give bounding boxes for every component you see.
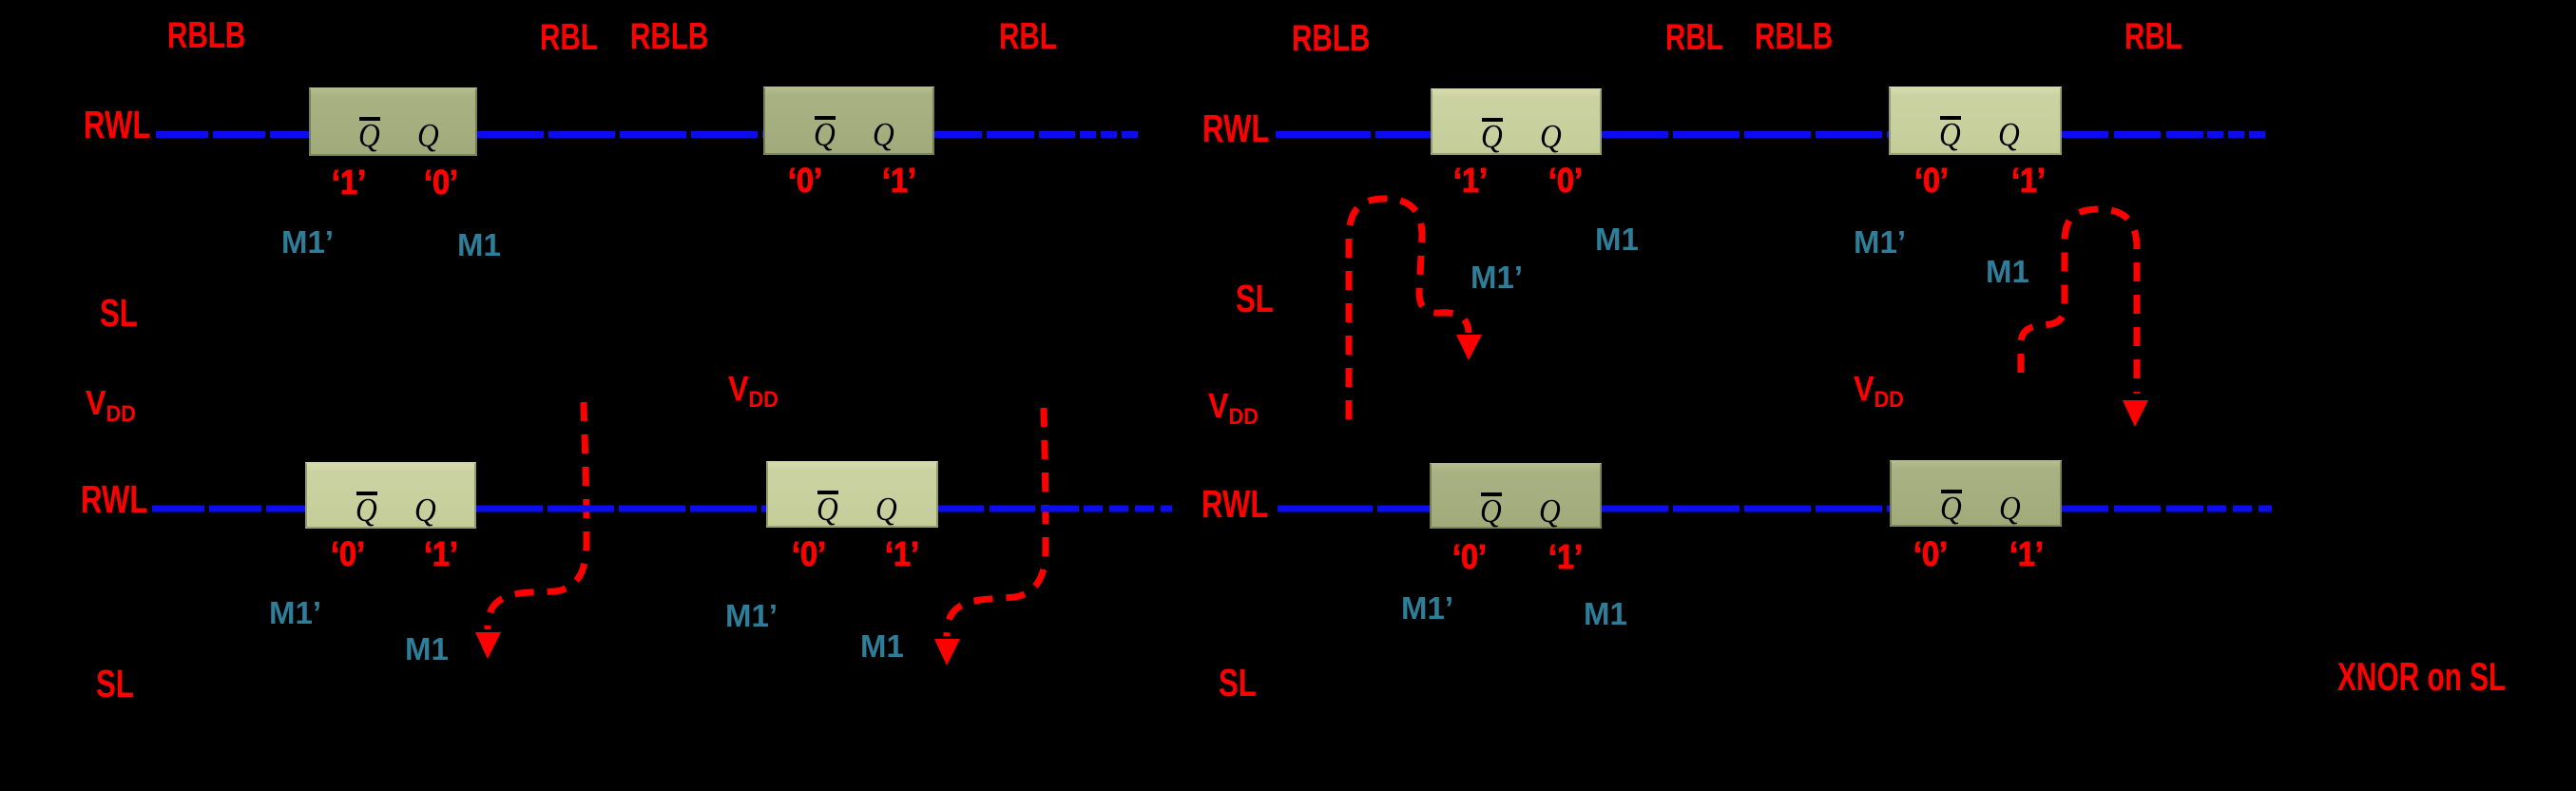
state label '1' (B2 Q)	[882, 164, 916, 198]
SRAM cell B3 (left panel row2 cell1)	[305, 462, 476, 529]
power label VDD (right panel row2)	[1854, 372, 1904, 412]
wire RWL row2 left panel seg c	[938, 506, 1079, 512]
SRAM cell B6 (right panel row1 cell2)	[1889, 87, 2062, 155]
wire RWL row1 right panel seg d (fading dashes)	[2207, 131, 2270, 138]
wire RWL row2 right panel seg d (fading dashes)	[2207, 506, 2272, 512]
state label '1' (B4 Q)	[885, 537, 919, 571]
wire RWL row1 right panel seg a	[1276, 131, 1431, 138]
SRAM cell B7 (right panel row2 cell1)	[1430, 463, 1602, 529]
wire RWL row1 right panel seg c	[2062, 131, 2203, 138]
transistor label M1 (B6)	[1986, 256, 2029, 287]
current arrow A2 (left panel bottom row cell2, red dashed)	[947, 408, 1046, 636]
state label '1' (B5 Qbar)	[1453, 164, 1488, 198]
state label '0' (B6 Qbar)	[1914, 164, 1949, 198]
transistor label M1 (B1)	[457, 229, 501, 260]
transistor label M1 (B4)	[860, 630, 904, 662]
SRAM cell B2 (left panel row1 cell2)	[763, 87, 934, 155]
state label '1' (B1 Qbar)	[332, 165, 366, 200]
arrowhead A1	[475, 632, 501, 659]
SRAM cell B5 (right panel row1 cell1)	[1431, 88, 1602, 155]
wire RWL row2 left panel seg b	[476, 506, 766, 512]
state label '0' (B7 Qbar)	[1452, 540, 1487, 574]
net label RBL (right panel cell1)	[1665, 19, 1723, 56]
current arrow A3 (right panel top row cell1, red dashed loop)	[1349, 199, 1469, 419]
wire RWL row2 left panel seg a	[152, 506, 305, 512]
net label RWL (right panel row2)	[1201, 485, 1268, 524]
wire RWL row1 left panel seg b	[477, 131, 763, 138]
power label VDD (right panel row1)	[1208, 389, 1259, 429]
state label '0' (B1 Q)	[424, 165, 458, 200]
transistor label M1 (B3)	[405, 633, 449, 665]
transistor label M1 (B5)	[1595, 223, 1639, 255]
state label '0' (B4 Qbar)	[792, 537, 826, 571]
state label '1' (B8 Q)	[2009, 537, 2044, 571]
state label '0' (B3 Qbar)	[331, 537, 365, 571]
net label RWL (left panel row1)	[84, 106, 150, 145]
net label RBLB (right panel cell2)	[1755, 18, 1833, 55]
net label RWL (right panel row1)	[1202, 109, 1269, 148]
wire RWL row2 right panel seg a	[1278, 506, 1430, 512]
SRAM cell B8 (right panel row2 cell2)	[1890, 460, 2062, 527]
wire RWL row2 right panel seg c	[2062, 506, 2203, 512]
state label '0' (B5 Q)	[1548, 164, 1583, 198]
net label RBL (left panel, cell2)	[999, 18, 1057, 55]
current arrow A1 (left panel bottom row cell1, red dashed)	[488, 402, 586, 629]
net label RWL (left panel row2)	[81, 480, 147, 519]
state label '0' (B2 Qbar)	[788, 164, 822, 198]
net label RBLB (right panel cell1)	[1292, 20, 1370, 57]
net label SL (left panel row1)	[100, 294, 138, 333]
net label SL (right panel row2)	[1219, 664, 1257, 703]
net label RBL (right panel cell2)	[2124, 18, 2182, 55]
net label SL (left panel row2)	[96, 665, 134, 704]
caption XNOR on SL	[2337, 657, 2506, 697]
SRAM cell B1 (left panel row1 cell1)	[309, 87, 477, 156]
arrowhead A2	[934, 639, 960, 666]
wire RWL row1 left panel seg c	[934, 131, 1075, 138]
current arrow A4 (right panel top row cell2, red dashed loop)	[2021, 209, 2137, 394]
transistor label M1' (B6)	[1854, 226, 1906, 258]
state label '1' (B7 Q)	[1548, 540, 1583, 574]
net label RBL (left panel, cell1)	[540, 19, 598, 56]
arrowhead A4	[2123, 400, 2148, 427]
SRAM cell B4 (left panel row2 cell2)	[766, 461, 938, 528]
transistor label M1' (B1)	[281, 226, 334, 258]
wire RWL row2 left panel seg d (fading dashes)	[1084, 506, 1172, 512]
net label RBLB (left panel, cell1)	[167, 17, 245, 54]
transistor label M1' (B7)	[1401, 592, 1453, 624]
wire RWL row1 left panel seg d (fading dashes)	[1080, 131, 1140, 138]
net label SL (right panel row1)	[1236, 280, 1274, 318]
wire RWL row1 left panel seg a	[156, 131, 309, 138]
arrowhead A3	[1456, 335, 1482, 360]
transistor label M1' (B5)	[1471, 261, 1523, 293]
state label '0' (B8 Qbar)	[1913, 537, 1948, 571]
power label VDD (left panel row1)	[86, 386, 136, 426]
transistor label M1' (B4)	[725, 600, 778, 631]
transistor label M1' (B3)	[269, 597, 321, 628]
wire RWL row2 right panel seg b	[1602, 506, 1890, 512]
transistor label M1 (B7)	[1584, 598, 1627, 629]
power label VDD (left panel row2)	[728, 372, 779, 412]
state label '1' (B3 Q)	[424, 537, 458, 571]
net label RBLB (left panel, cell2)	[630, 18, 708, 55]
wire RWL row1 right panel seg b	[1602, 131, 1889, 138]
state label '1' (B6 Q)	[2011, 164, 2046, 198]
